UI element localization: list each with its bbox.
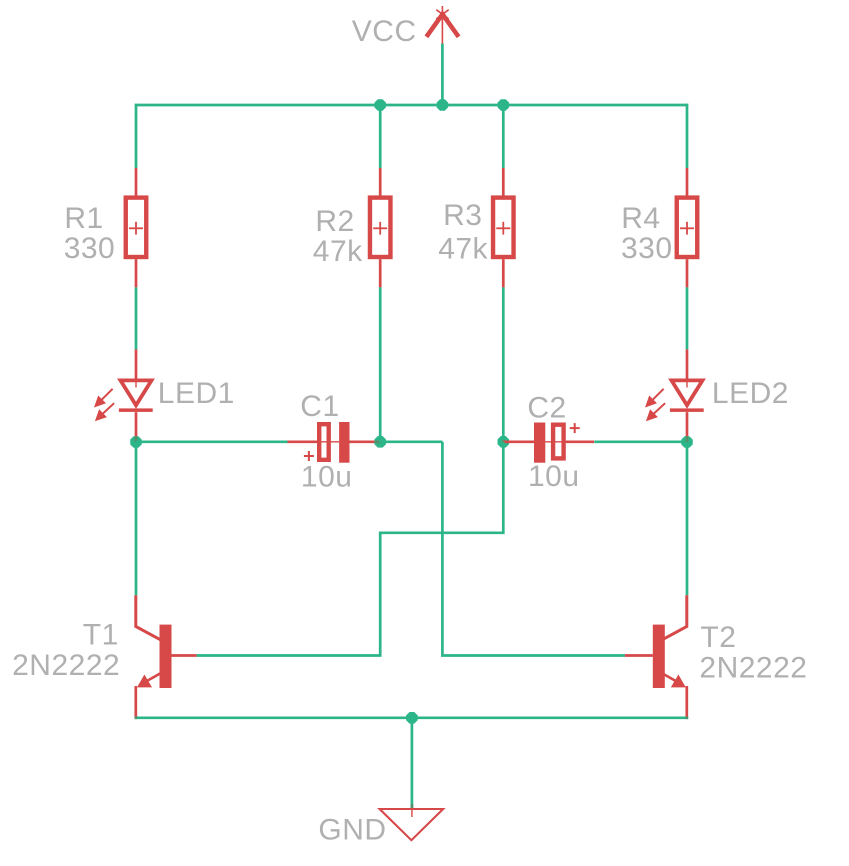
svg-text:2N2222: 2N2222 <box>12 649 120 682</box>
wire C1 left pin <box>288 440 318 443</box>
resistor R1 <box>126 198 147 257</box>
wire crossover down to T2 base <box>442 442 625 656</box>
junction dot LED1 <box>130 436 142 448</box>
capacitor C2 <box>534 423 580 463</box>
wire C2 junction down and across to T1 base <box>197 442 504 656</box>
svg-text:47k: 47k <box>313 235 363 268</box>
wire R1 top pin <box>135 168 138 196</box>
wire R4 top pin <box>686 168 689 196</box>
wire T1 base pin <box>172 654 197 657</box>
resistor R2 <box>370 198 391 257</box>
wire rail to R3 <box>502 105 505 168</box>
resistor R4 <box>677 198 698 257</box>
supply symbol VCC <box>426 6 458 44</box>
wire R1 bottom pin <box>135 259 138 287</box>
svg-text:GND: GND <box>318 814 386 847</box>
wire R4 bottom pin <box>686 259 689 287</box>
wire LED2 bottom pin <box>686 412 689 442</box>
svg-text:C2: C2 <box>527 392 566 425</box>
junction dot rail-R3 <box>498 99 510 111</box>
wire bottom rail corner blend left <box>135 716 138 719</box>
resistor R3 <box>493 198 514 257</box>
wire bottom rail <box>135 716 688 719</box>
junction dot ground rail <box>406 712 418 724</box>
wire rail to R2 <box>379 105 382 168</box>
svg-text:10u: 10u <box>301 461 353 494</box>
transistor T2 <box>653 595 687 718</box>
svg-text:T2: T2 <box>700 621 736 654</box>
wire C1 right pin <box>350 440 381 443</box>
wire T2 base pin <box>625 654 653 657</box>
junction dot C1-R2 <box>374 436 386 448</box>
wire R3 to C2 junction <box>502 287 505 441</box>
svg-text:10u: 10u <box>528 460 580 493</box>
svg-text:R3: R3 <box>443 199 482 232</box>
junction dot rail-R2 <box>374 99 386 111</box>
svg-text:LED1: LED1 <box>158 377 235 410</box>
wire C2 to LED2 <box>594 440 687 443</box>
wire VCC stub <box>441 44 444 106</box>
wire R2 bottom pin <box>379 259 382 287</box>
wire R4 to LED2 <box>686 287 689 349</box>
ground GND <box>380 804 444 840</box>
wire C1 junction to crossover <box>380 440 442 443</box>
wire LED1 junction to T1 collector <box>135 442 138 595</box>
wire bottom rail corner blend right <box>685 716 688 719</box>
wire R2 top pin <box>379 168 382 196</box>
wire C2 right pin <box>566 440 594 443</box>
wire rail to GND <box>411 718 414 810</box>
junction dot LED2 <box>681 436 693 448</box>
svg-text:R1: R1 <box>64 202 103 235</box>
svg-text:2N2222: 2N2222 <box>699 651 807 684</box>
wire C2 left pin <box>503 440 534 443</box>
wire LED2 junction to T2 collector <box>686 442 689 595</box>
svg-text:VCC: VCC <box>352 15 417 48</box>
junction dot rail-VCC <box>437 99 449 111</box>
wire rail to R1 <box>135 104 138 168</box>
LED LED1 <box>94 375 153 427</box>
wire R2 to C1 junction <box>379 287 382 441</box>
svg-text:330: 330 <box>621 232 673 265</box>
LED LED2 <box>645 375 704 427</box>
wire R3 bottom pin <box>502 259 505 287</box>
svg-text:C1: C1 <box>300 390 339 423</box>
wire R3 top pin <box>502 168 505 196</box>
svg-text:LED2: LED2 <box>712 377 789 410</box>
wire rail to R4 <box>686 104 689 168</box>
svg-text:T1: T1 <box>83 619 119 652</box>
svg-text:R4: R4 <box>621 202 660 235</box>
wire LED1 to C1 <box>136 440 288 443</box>
wire top rail <box>135 104 688 107</box>
wire LED1 top pin <box>135 349 138 380</box>
wire LED2 top pin <box>686 349 689 380</box>
transistor T1 <box>136 595 172 718</box>
svg-text:47k: 47k <box>438 232 488 265</box>
svg-text:330: 330 <box>64 232 116 265</box>
wire LED1 bottom pin <box>135 412 138 442</box>
junction dot C2-R3 <box>498 436 510 448</box>
capacitor C1 <box>304 422 350 463</box>
wire R1 to LED1 <box>135 287 138 349</box>
svg-text:R2: R2 <box>315 205 354 238</box>
